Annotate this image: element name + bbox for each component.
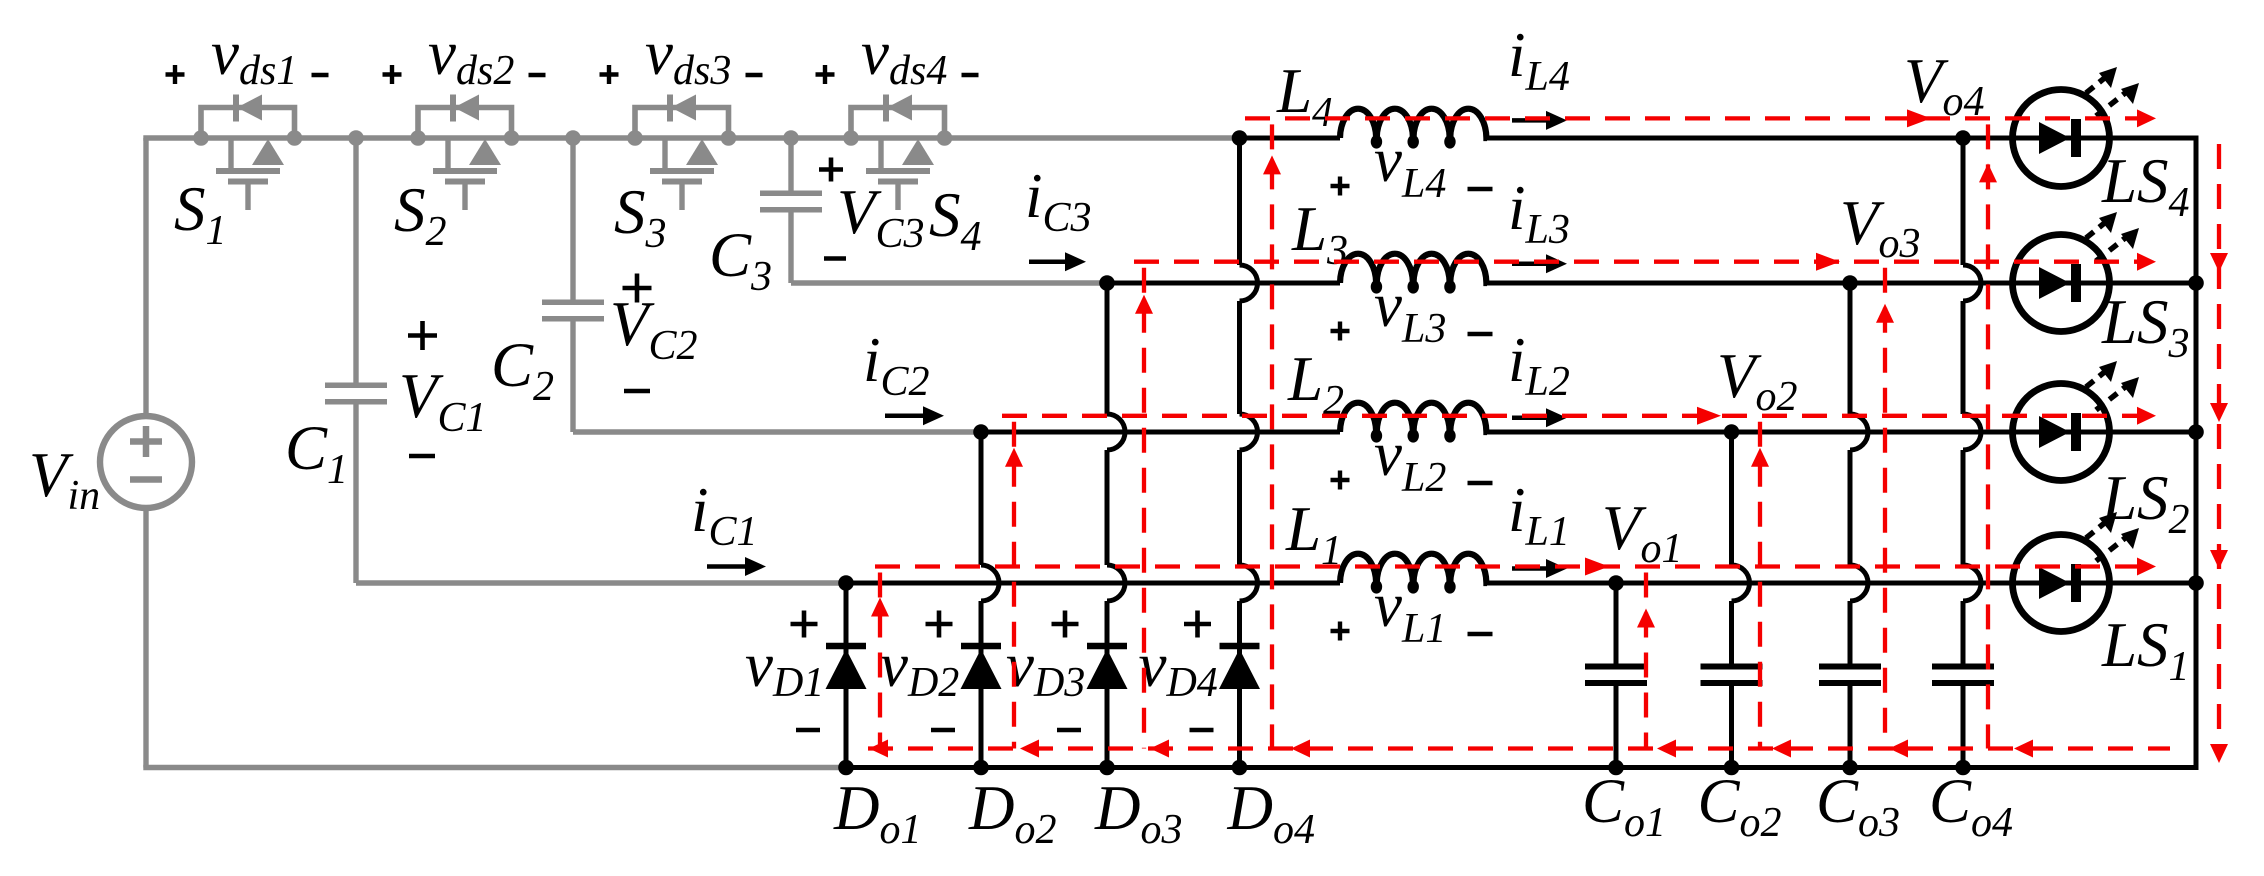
capacitor Co1 wire [1614,583,1619,768]
svg-text:iL1: iL1 [1508,475,1570,555]
switch S3 body diode loop [635,108,729,139]
node [1232,760,1248,776]
node [2188,575,2204,591]
diode Do3 [1087,643,1127,650]
svg-text:L2: L2 [1287,344,1344,424]
capacitor C3 branch wire upper [788,138,793,194]
wire row4 right segment [1487,136,2196,141]
LED string LS2 circle [2013,384,2110,481]
switch S2 body diode [450,95,456,122]
wire input bottom gray [143,765,846,770]
svg-text:iC3: iC3 [1025,161,1092,241]
red arrow up Do4 [1263,155,1281,174]
diode Do2 wire [981,432,999,768]
node [838,575,854,591]
node [1724,424,1740,440]
capacitor Co3 [1819,664,1881,670]
svg-text:S4: S4 [929,180,982,260]
node S1 left [193,130,209,146]
switch S3 MOSFET [650,138,718,210]
wire C3 output to Do3 [791,280,1107,285]
switch S4 body diode [883,95,889,122]
node [1608,760,1624,776]
label vds3 plus [600,72,619,76]
label vL3 minus [1468,332,1493,336]
svg-text:Do1: Do1 [833,773,922,853]
red arrow up Co1 [1637,609,1655,628]
wire right rail [2194,136,2199,768]
red arrow down right 4 [2210,744,2228,763]
label VC3 minus [824,256,846,261]
wire input left vertical top [143,138,148,416]
red path row2 [1002,414,2148,418]
wire row1 segment [846,581,1340,586]
red path vertical at Do4 [1270,124,1274,748]
svg-text:S3: S3 [614,177,667,257]
svg-text:iL3: iL3 [1508,173,1570,253]
node S4 left [843,130,859,146]
red arrow Vo3 [1816,253,1840,271]
red arrow down right 3 [2210,550,2228,569]
red arrow Vo1 [1585,558,1609,576]
svg-text:Do2: Do2 [968,773,1057,853]
label vds3 minus [746,73,763,77]
inductor L3 [1340,254,1487,291]
node S2 left [410,130,426,146]
red path bottom return [868,746,2170,750]
svg-text:Co2: Co2 [1698,766,1782,846]
svg-text:Vo3: Vo3 [1840,188,1920,267]
label VC2 minus [624,389,650,394]
label vD3 plus [1052,622,1079,627]
node C2 top [565,130,581,146]
label vL1 minus [1468,632,1493,636]
LED string LS3 diode [2039,264,2076,302]
LED string LS1 circle [2013,535,2110,632]
svg-text:Do4: Do4 [1227,773,1316,853]
red path row4 [1245,116,2148,120]
svg-text:vD1: vD1 [745,630,824,706]
node [1955,760,1971,776]
node [973,424,989,440]
arrow iC2 [885,414,925,419]
svg-text:Vo2: Vo2 [1717,341,1797,420]
switch S4 MOSFET [866,138,934,210]
diode Do4 wire [1240,138,1258,768]
capacitor C3 [760,190,822,196]
node C1 top [348,130,364,146]
node [1608,575,1624,591]
wire row3 right segment [1487,281,2196,286]
red arrow up Do1 [871,598,889,617]
red arrow down right 2 [2210,403,2228,422]
svg-text:iC2: iC2 [863,325,930,405]
red arrow bottom 5 [1657,740,1676,758]
svg-text:S1: S1 [174,174,227,254]
LED string LS3 circle [2013,235,2110,332]
label vD3 minus [1057,728,1081,733]
svg-text:vds2: vds2 [428,18,514,94]
node S4 right [937,130,953,146]
inductor L4 [1340,109,1487,146]
red arrow Vo4 [1907,109,1931,127]
red arrow up Co3 [1876,304,1894,323]
node S3 left [627,130,643,146]
svg-text:C1: C1 [285,413,348,493]
capacitor Co1 [1585,664,1647,670]
svg-text:C2: C2 [491,330,554,410]
red path vertical at Co2 [1758,422,1762,749]
svg-text:L1: L1 [1285,494,1342,574]
node [1099,275,1115,291]
red arrow Vo2 [1697,407,1721,425]
red arrow bottom 4 [1291,740,1310,758]
svg-text:vD2: vD2 [880,630,959,706]
wire row3 segment [1107,281,1340,286]
node [1842,760,1858,776]
wire row1 right segment [1487,581,2196,586]
svg-text:vD3: vD3 [1006,630,1085,706]
red arrow up Co4 [1979,163,1997,182]
label vL2 minus [1468,481,1493,485]
label vL3 plus [1331,329,1350,333]
node [1724,760,1740,776]
wire C1 output to Do1 [356,580,846,585]
svg-text:iL2: iL2 [1508,325,1570,405]
svg-text:vds3: vds3 [645,18,731,94]
LED string LS4 diode [2039,119,2076,157]
node [1232,130,1248,146]
switch S2 MOSFET [433,138,501,210]
capacitor C1 branch wire upper [353,138,358,386]
label vds1 plus [166,72,185,76]
red arrow after LS2 [2137,407,2156,425]
label VC3 plus [819,167,843,172]
switch S1 body diode [233,95,239,122]
capacitor C2 branch wire upper [570,138,575,303]
red arrow bottom 3 [1150,740,1169,758]
label vD1 minus [796,728,820,733]
red arrow bottom 1 [869,740,888,758]
red arrow after LS1 [2137,558,2156,576]
node S2 right [504,130,520,146]
voltage source Vin [100,416,192,508]
capacitor Co2 wire [1732,432,1750,768]
diode Do1 wire [844,583,849,768]
svg-text:iC1: iC1 [691,475,758,555]
red arrow bottom 7 [1889,740,1908,758]
red arrow up Do3 [1135,295,1153,314]
diode Do1 [826,643,866,650]
svg-text:Vin: Vin [29,440,100,519]
wire row4 left segment [1240,136,1341,141]
switch S1 MOSFET [216,138,284,210]
node [973,760,989,776]
LED string LS3 light arrows [2086,212,2139,261]
wire bottom rail black [846,765,2199,770]
LED string LS2 light arrows [2086,361,2139,410]
label vL1 plus [1331,629,1350,633]
label vD1 plus [791,622,818,627]
arrow iL3 [1512,261,1548,266]
red path row3 [1134,260,2148,264]
capacitor C1 [325,382,387,388]
red arrow down right 1 [2210,253,2228,272]
label vD4 minus [1190,728,1214,733]
svg-text:Do3: Do3 [1094,773,1183,853]
switch S4 body diode loop [851,108,945,139]
svg-text:Co1: Co1 [1582,766,1666,846]
label vL4 plus [1331,184,1350,188]
red path vertical at Do2 [1012,422,1016,749]
LED string LS4 light arrows [2086,67,2139,116]
red path vertical at Do1 [878,573,882,749]
LED string LS2 diode [2039,413,2076,451]
wire C2 output to Do2 [573,429,981,434]
LED string LS1 light arrows [2086,512,2139,561]
diode Do3 wire [1107,283,1125,768]
red path vertical at Do3 [1142,268,1146,749]
inductor L2 [1340,403,1487,440]
svg-text:VC3: VC3 [837,177,925,257]
svg-text:vds1: vds1 [211,18,297,94]
node [2188,424,2204,440]
arrow iL1 [1512,566,1548,571]
svg-text:vD4: vD4 [1139,630,1218,706]
label vD4 plus [1184,622,1211,627]
svg-text:C3: C3 [709,220,772,300]
svg-text:VC1: VC1 [399,361,487,441]
red path vertical at Co4 [1986,124,1990,748]
arrow iL4 [1512,118,1548,123]
node C3 top [783,130,799,146]
node [1955,130,1971,146]
svg-text:Vo1: Vo1 [1602,493,1682,572]
capacitor C3 branch wire lower [788,209,793,283]
label vds1 minus [312,73,329,77]
svg-text:VC2: VC2 [610,289,698,369]
arrow iC1 [707,564,747,569]
red arrow after LS4 [2137,109,2156,127]
red path vertical at Co1 [1644,573,1648,749]
red path vertical at Co3 [1883,268,1887,749]
node [2188,275,2204,291]
label vds4 plus [816,72,835,76]
diode Do4 [1220,643,1260,650]
inductor L1 [1340,554,1487,591]
svg-text:LS2: LS2 [2101,463,2190,543]
red arrow after LS3 [2137,253,2156,271]
capacitor C1 branch wire lower [353,401,358,583]
svg-text:S2: S2 [394,175,447,255]
svg-text:vds4: vds4 [861,18,947,94]
red arrow up Do2 [1005,448,1023,467]
svg-text:LS4: LS4 [2101,146,2190,226]
label VC1 plus [408,333,437,338]
svg-text:L4: L4 [1276,56,1333,136]
node [838,760,854,776]
label vds2 plus [383,72,402,76]
capacitor Co2 [1701,664,1763,670]
svg-text:LS1: LS1 [2101,610,2190,690]
label vD2 plus [926,622,953,627]
node S1 right [287,130,303,146]
node [1842,275,1858,291]
wire top rail gray [143,135,1239,140]
node S3 right [721,130,737,146]
switch S3 body diode [667,95,673,122]
label vD2 minus [931,728,955,733]
red arrow bottom 6 [1772,740,1791,758]
capacitor Co3 wire [1850,283,1868,768]
label vds4 minus [962,73,979,77]
wire row2 segment [981,430,1340,435]
label vL2 plus [1331,478,1350,482]
red arrow up Co2 [1751,448,1769,467]
label VC2 plus [623,286,652,291]
LED string LS4 circle [2013,90,2110,187]
svg-text:Co3: Co3 [1816,766,1900,846]
arrow iL2 [1512,416,1548,421]
arrow iC3 [1029,259,1067,264]
red arrow bottom 2 [1020,740,1039,758]
label vL4 minus [1468,187,1493,191]
capacitor Co4 wire [1963,138,1981,768]
LED string LS1 diode [2039,564,2076,602]
capacitor Co4 [1932,664,1994,670]
switch S1 body diode loop [201,108,295,139]
red path right return vertical [2217,144,2221,744]
wire row2 right segment [1487,430,2196,435]
svg-text:Co4: Co4 [1929,766,2013,846]
svg-text:iL4: iL4 [1508,20,1570,100]
red arrow bottom 8 [2014,740,2033,758]
capacitor C2 branch wire lower [570,318,575,432]
capacitor C2 [542,299,604,305]
red path row1 [875,564,2148,568]
switch S2 body diode loop [418,108,512,139]
node [1099,760,1115,776]
label vds2 minus [529,73,546,77]
label VC1 minus [409,454,435,459]
svg-text:LS3: LS3 [2101,287,2190,367]
wire input left vertical bottom [143,508,148,768]
diode Do2 [961,643,1001,650]
